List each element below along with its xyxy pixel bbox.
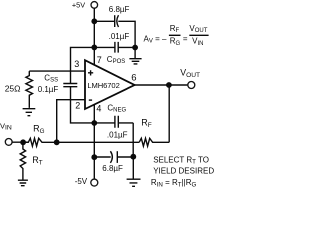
ground R_T: [18, 180, 28, 186]
wire V_IN: [12, 141, 28, 143]
svg-text:.01µF: .01µF: [107, 130, 128, 139]
svg-text:SELECT RT TO: SELECT RT TO: [153, 155, 209, 165]
svg-text:6.8µF: 6.8µF: [102, 164, 123, 173]
wire output: [135, 84, 188, 86]
svg-text:RF: RF: [141, 118, 152, 129]
wire -5V to bottom 6.8uF: [94, 156, 110, 158]
ground 25 ohm: [23, 109, 36, 116]
wire +5V rail: [93, 8, 95, 66]
resistor R_T: [20, 142, 25, 180]
svg-text:CNEG: CNEG: [107, 103, 126, 113]
wire to top 6.8uF: [94, 20, 114, 22]
op-amp U1 LMH6702: [85, 60, 135, 109]
wire C_NEG tap: [94, 122, 133, 124]
wire C_SS branch from +5V: [71, 47, 95, 83]
svg-text:6.8µF: 6.8µF: [109, 5, 130, 14]
svg-text:VOUT: VOUT: [180, 68, 200, 79]
svg-text:VIN: VIN: [192, 37, 203, 47]
svg-text:2: 2: [75, 101, 80, 111]
V_IN terminal: [5, 139, 12, 146]
wire feedback riser: [168, 85, 170, 142]
wire .01uF tap: [94, 46, 135, 48]
wire pin 3 input: [29, 70, 85, 72]
op-amp + input mark: [88, 70, 93, 75]
junction output / feedback: [166, 82, 172, 88]
svg-text:6: 6: [131, 73, 136, 84]
resistor 25 ohm: [26, 71, 33, 108]
junction +5V rail / .01uF: [91, 45, 97, 51]
svg-text:=: =: [183, 34, 188, 43]
svg-text:0.1µF: 0.1µF: [38, 85, 59, 94]
svg-text:LMH6702: LMH6702: [87, 81, 119, 90]
svg-text:+5V: +5V: [72, 1, 85, 10]
capacitor .01uF C_POS: [115, 42, 118, 53]
capacitor 6.8uF top bulk: [114, 15, 116, 27]
resistor R_G: [23, 138, 57, 146]
resistor R_F: [139, 138, 169, 146]
ground bypass bus: [129, 50, 141, 64]
svg-text:VIN: VIN: [0, 121, 12, 131]
+5V terminal: [91, 2, 98, 9]
svg-text:RT: RT: [32, 155, 43, 166]
junction R_G / pin2 / feedback: [54, 139, 60, 145]
V_OUT terminal: [188, 82, 195, 89]
junction -5V / bottom 6.8uF: [91, 154, 97, 160]
junction -5V rail / C_NEG: [91, 120, 97, 126]
junction bypass bus: [132, 45, 138, 51]
svg-text:CSS: CSS: [44, 73, 58, 83]
svg-text:3: 3: [74, 59, 79, 69]
capacitor 6.8uF bottom bulk: [110, 151, 112, 163]
ground bottom bus: [127, 157, 141, 187]
pin 4 stub / -5V rail: [93, 104, 95, 179]
svg-text:RG: RG: [33, 123, 45, 134]
capacitor C_NEG .01uF: [115, 116, 118, 128]
svg-text:RG: RG: [170, 37, 181, 47]
svg-text:RF: RF: [170, 24, 180, 34]
junction V_IN / R_T: [20, 139, 26, 145]
wire top bus: [118, 21, 135, 47]
svg-text:YIELD DESIRED: YIELD DESIRED: [153, 166, 214, 175]
svg-text:25Ω: 25Ω: [5, 83, 21, 93]
svg-text:CPOS: CPOS: [107, 55, 125, 65]
svg-text:-5V: -5V: [75, 177, 88, 186]
wire C_SS bottom to -5V rail: [71, 87, 95, 123]
svg-text:RIN = RT||RG: RIN = RT||RG: [151, 178, 197, 188]
svg-text:VOUT: VOUT: [189, 24, 207, 34]
wire feedback line: [57, 141, 140, 143]
junction +5V rail / 6.8uF: [91, 18, 97, 24]
junction bus / bottom 6.8uF: [130, 154, 136, 160]
svg-text:4: 4: [96, 103, 101, 113]
capacitor C_SS 0.1uF supply-to-supply: [63, 84, 77, 87]
op-amp - input mark: [89, 99, 92, 101]
svg-text:7: 7: [97, 55, 102, 65]
-5V terminal: [91, 179, 98, 186]
wire C_NEG bus down: [132, 123, 134, 157]
svg-text:.01µF: .01µF: [109, 32, 130, 41]
svg-text:AV = –: AV = –: [144, 34, 167, 44]
wire pin 2: [57, 100, 85, 143]
